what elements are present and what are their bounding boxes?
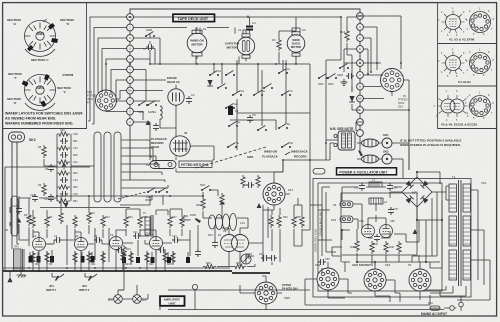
amplifier unit label box: [160, 296, 185, 306]
oscillator valve V6a: [359, 219, 375, 238]
socket SK4: [315, 263, 339, 290]
capacitor C34: [387, 183, 397, 191]
valve V3b: [150, 233, 163, 250]
capacitor C1 + arrow: [12, 205, 22, 223]
plug P1 socket face: [381, 68, 408, 109]
resistor R38: [350, 239, 359, 252]
valve base B9A mid: [465, 49, 495, 78]
connector SK1: [357, 133, 392, 148]
extra terminals below col2: [357, 113, 364, 141]
resistor R2: [272, 31, 281, 64]
electrolytic C6 black: [228, 106, 233, 115]
playback/record head 3B: [151, 131, 190, 156]
wafer box frame: [3, 3, 87, 129]
resistor R39: [370, 241, 374, 254]
plug P2 pill: [146, 161, 212, 169]
tape deck unit box outline: [130, 9, 360, 180]
coil L1: [153, 106, 162, 119]
socket bottom wires: [305, 262, 430, 305]
coupling capacitors row: [54, 231, 180, 253]
resistor R44: [122, 245, 131, 290]
junction arrow below SK1: [257, 203, 262, 208]
capacitor C37: [388, 207, 398, 215]
socket SK3 fitted into P3: [87, 90, 117, 111]
switch contacts cluster (SW1 sections): [209, 68, 293, 148]
right side resistors: [269, 215, 304, 228]
link pill: [313, 169, 325, 175]
resistor R6: [24, 213, 31, 226]
switch SW7 contacts mid: [146, 184, 211, 199]
cap C36 right: [318, 258, 330, 265]
fuse FS1: [428, 301, 440, 310]
junction arrow: [64, 203, 69, 208]
capacitor C7: [143, 44, 154, 51]
junction dots power: [341, 171, 443, 263]
jack JK3 output: [180, 214, 201, 223]
capstan motor M2: [225, 28, 255, 61]
lamp wires: [108, 285, 148, 299]
concentric wires from col1 to SK3: [88, 17, 127, 124]
power unit label box: [337, 168, 397, 175]
coil L3: [369, 178, 382, 188]
capacitor C43: [44, 194, 54, 202]
resistor R9: [38, 183, 46, 196]
amplifier vertical connects: [10, 207, 190, 271]
plug P5: [333, 201, 353, 208]
valve V1 V2 V3 symbol EF86: [438, 7, 468, 37]
scan noise overlay: [0, 0, 1, 1]
resistor R28 vertical: [196, 197, 205, 210]
dashed link SW6-SW7: [118, 191, 150, 199]
mains transformer T1: [449, 175, 471, 286]
power unit inner box: [318, 183, 442, 291]
switch SW3 contacts: [318, 74, 337, 87]
switch wafer SW1 diagram: [7, 18, 75, 62]
HT rail and extra amplifier wires: [3, 196, 230, 268]
bridge rectifier MR1: [397, 172, 437, 212]
electrolytic capacitors row (black): [29, 256, 191, 263]
lamp LP1: [108, 295, 122, 304]
bottom long wires: [118, 254, 450, 310]
stereo note text: [400, 139, 461, 148]
capacitor C36: [373, 234, 380, 246]
valve V3a: [110, 233, 123, 250]
plug P1 hatched connector: [334, 131, 355, 150]
capacitor C8: [45, 164, 54, 172]
resistor R40: [384, 241, 395, 254]
loudspeaker LS1: [208, 214, 245, 238]
switch wafer SW4 diagram: [7, 72, 74, 110]
wires mid band: [230, 113, 310, 130]
capacitor C6: [346, 73, 354, 79]
tape deck unit label box: [173, 14, 215, 21]
capacitor C33: [354, 183, 365, 191]
diode MR3: [349, 87, 355, 111]
socket SK5 aux: [352, 263, 391, 291]
socket P4 bottom: [255, 282, 298, 304]
valve V1: [33, 234, 46, 251]
wires mid section: [310, 122, 409, 178]
valve box frame: [438, 3, 497, 129]
output transformer T2: [143, 212, 153, 237]
jack JK1: [46, 273, 64, 292]
wire across below EQ: [40, 159, 130, 208]
valve V5 V6 twin triode symbol: [434, 90, 472, 122]
wafer note text: [5, 112, 83, 126]
microphone SK2: [9, 132, 36, 236]
capacitor C4: [246, 21, 256, 31]
screened cable loops: [94, 132, 168, 202]
hatched ground left: [17, 271, 27, 278]
resistor R8: [38, 145, 46, 158]
valve V2: [75, 234, 88, 251]
socket SK1 (amplifier top): [263, 183, 294, 205]
amplifier top wire runs: [5, 167, 150, 271]
EQ network block capacitors and resistors: [57, 129, 78, 203]
wires right section: [344, 16, 409, 170]
wind back motor M3: [287, 28, 306, 59]
oscillator inner box: [341, 193, 417, 255]
capacitor C3: [186, 93, 195, 104]
resistor R41: [397, 241, 401, 254]
wire mesh tape deck horizontals: [133, 15, 341, 172]
terminal circles column 2 (right edge of tape deck): [357, 13, 364, 114]
ground bus (thick): [3, 271, 270, 273]
SW1 mechanical link (dashed): [196, 147, 309, 168]
ground symbol: [341, 79, 348, 86]
capacitor C5: [247, 113, 256, 123]
capacitor C2: [153, 123, 159, 131]
meter M1: [241, 254, 255, 264]
connector SK2: [357, 143, 398, 164]
socket SK6: [331, 216, 353, 223]
arrow near SW5: [146, 120, 151, 125]
coil L4: [369, 198, 387, 204]
lamp LP2: [133, 295, 148, 304]
power unit outer box: [313, 179, 471, 298]
mic lead lower: [7, 228, 19, 282]
capacitor C10 top: [30, 194, 38, 202]
valve base B9A top: [465, 8, 495, 37]
valve base B9A bottom: [465, 92, 495, 121]
terminal circle above amplifier label: [192, 284, 197, 289]
anode resistors row: [28, 211, 184, 228]
terminal circles column 1 (left edge of tape deck): [127, 14, 134, 126]
power unit wires: [318, 172, 490, 300]
mains plug circles: [444, 296, 463, 311]
output valve V4 twin circle: [221, 229, 249, 252]
amplifier right wires: [145, 160, 322, 273]
resistors R36 R37 horizontal on bus: [203, 262, 246, 269]
volume pot: [220, 193, 224, 208]
extra caps amplifier: [195, 175, 260, 257]
cathode resistors row: [31, 251, 175, 266]
oscillator valve V6b: [380, 219, 396, 238]
junction arrow power: [413, 229, 418, 234]
arrow: [358, 150, 363, 156]
wind-on motor M1: [187, 27, 207, 59]
erase head 3A: [167, 76, 184, 105]
jack JK2: [79, 273, 97, 292]
diode MR2: [207, 80, 213, 86]
plug P3: [408, 263, 431, 291]
valve V4 symbol EL84: [438, 48, 468, 78]
input transformer TR1: [14, 246, 25, 272]
resistor R12: [340, 17, 349, 55]
switches SW4 SW5: [138, 101, 157, 115]
pot arrow on EQ: [62, 163, 66, 170]
caps C38 C39: [259, 253, 277, 261]
switch SW2: [337, 64, 349, 78]
switch SW6: [145, 28, 155, 37]
